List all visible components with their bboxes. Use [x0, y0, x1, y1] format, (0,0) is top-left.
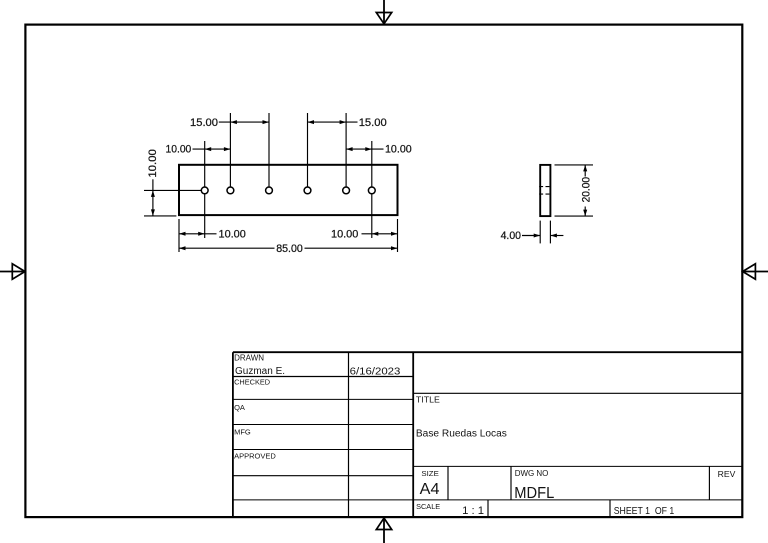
hole 3: [266, 187, 273, 194]
svg-text:MDFL: MDFL: [514, 485, 554, 502]
title block row line 6: [233, 499, 742, 501]
extension line hole 1 vertical: [204, 141, 206, 238]
extension line hole 2 vertical: [229, 113, 231, 190]
hole 5: [343, 187, 350, 194]
svg-text:SIZE: SIZE: [421, 469, 438, 478]
dimension 85.00 bottom: [179, 243, 398, 255]
svg-text:SHEET 1 OF 1: SHEET 1 OF 1: [614, 506, 675, 517]
dimension 10.00 bottom-left: [179, 228, 246, 240]
title block row line 4: [233, 449, 413, 451]
extension line hole 4 vertical: [307, 113, 309, 190]
hole 6: [368, 187, 375, 194]
title block row line 5: [233, 475, 413, 477]
dimension 20.00 side vertical: [580, 165, 592, 216]
dimension 10.00 mid-right: [346, 144, 412, 156]
dimension 10.00 mid-left: [166, 144, 231, 156]
title block DWG NO cell left divider: [510, 466, 512, 500]
svg-text:Guzman E.: Guzman E.: [235, 366, 285, 377]
extension line hole 5 vertical: [345, 113, 347, 190]
side view hidden line upper: [539, 186, 550, 188]
svg-text:TITLE: TITLE: [416, 394, 440, 404]
svg-text:A4: A4: [420, 481, 440, 498]
svg-text:DWG NO: DWG NO: [515, 469, 549, 478]
svg-text:4.00: 4.00: [501, 230, 521, 242]
svg-text:10.00: 10.00: [147, 149, 159, 178]
svg-text:6/16/2023: 6/16/2023: [350, 366, 401, 377]
extension line side top: [555, 164, 594, 166]
extension line hole 6 vertical: [371, 141, 373, 238]
front view plate outline: [179, 165, 398, 215]
dimension 4.00 side bottom: [501, 230, 564, 242]
svg-text:15.00: 15.00: [190, 117, 218, 129]
dimension 10.00 left vertical: [147, 149, 159, 216]
extension line side right bottom: [549, 221, 551, 244]
title block outer: [233, 352, 742, 517]
title block SIZE cell right divider: [447, 466, 449, 500]
svg-text:SCALE: SCALE: [416, 502, 440, 511]
extension line plate left bottom vertical: [178, 219, 180, 252]
svg-text:MFG: MFG: [234, 428, 251, 437]
extension line hole 3 vertical: [268, 113, 270, 190]
title block sheet cell divider: [609, 500, 611, 517]
centering mark top: [376, 0, 391, 24]
svg-text:20.00: 20.00: [580, 177, 592, 202]
svg-text:Base Ruedas Locas: Base Ruedas Locas: [416, 429, 507, 440]
dimension 15.00 top-right: [308, 117, 387, 129]
extension line plate bottom left: [144, 215, 176, 217]
svg-text:85.00: 85.00: [276, 243, 303, 255]
svg-text:REV: REV: [718, 470, 736, 479]
svg-text:10.00: 10.00: [166, 144, 192, 156]
dimension 10.00 bottom-right: [331, 228, 398, 240]
hole 1: [201, 187, 208, 194]
title block row line 2: [233, 398, 413, 400]
title block TITLE row divider: [413, 392, 742, 394]
svg-text:10.00: 10.00: [331, 228, 358, 240]
svg-text:APPROVED: APPROVED: [234, 451, 276, 460]
centering mark bottom: [376, 518, 391, 543]
title block row line 3: [233, 424, 413, 426]
svg-text:DRAWN: DRAWN: [234, 353, 264, 362]
svg-text:QA: QA: [234, 403, 245, 412]
title block column divider main: [412, 352, 414, 517]
extension line plate right bottom vertical: [397, 219, 399, 252]
svg-text:1 : 1: 1 : 1: [462, 505, 484, 517]
title block SIZE row divider: [413, 465, 742, 467]
centering mark left: [0, 264, 25, 279]
hole 2: [227, 187, 234, 194]
side view hidden line lower: [539, 193, 550, 195]
svg-text:15.00: 15.00: [359, 117, 387, 129]
extension line side bottom: [555, 215, 594, 217]
svg-text:10.00: 10.00: [385, 144, 412, 156]
dimension 15.00 top-left: [190, 117, 269, 129]
extension line side left bottom: [539, 221, 541, 244]
svg-text:10.00: 10.00: [219, 228, 246, 240]
hole 4: [304, 187, 311, 194]
extension line hole 1 horizontal left: [144, 189, 205, 191]
title block scale cell divider: [487, 500, 489, 517]
side view outline: [540, 165, 550, 216]
svg-text:CHECKED: CHECKED: [234, 378, 271, 387]
title block REV cell divider: [708, 466, 710, 500]
centering mark right: [743, 264, 768, 279]
title block column divider date: [348, 352, 350, 517]
title block row line 1: [233, 376, 413, 378]
